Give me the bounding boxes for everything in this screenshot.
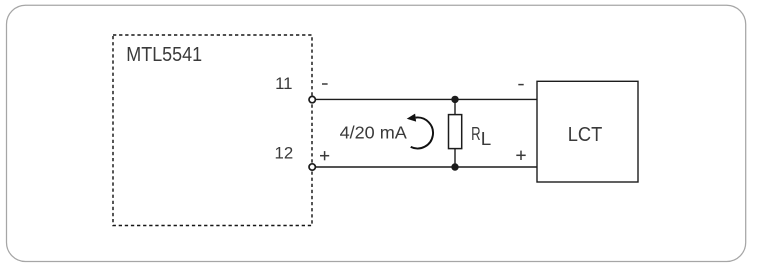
svg-text:MTL5541: MTL5541: [126, 44, 202, 66]
svg-text:12: 12: [275, 144, 294, 163]
svg-text:L: L: [481, 128, 491, 149]
svg-text:4/20 mA: 4/20 mA: [340, 123, 408, 143]
svg-text:11: 11: [275, 74, 292, 93]
svg-text:LCT: LCT: [568, 124, 603, 146]
svg-text:R: R: [471, 124, 481, 145]
